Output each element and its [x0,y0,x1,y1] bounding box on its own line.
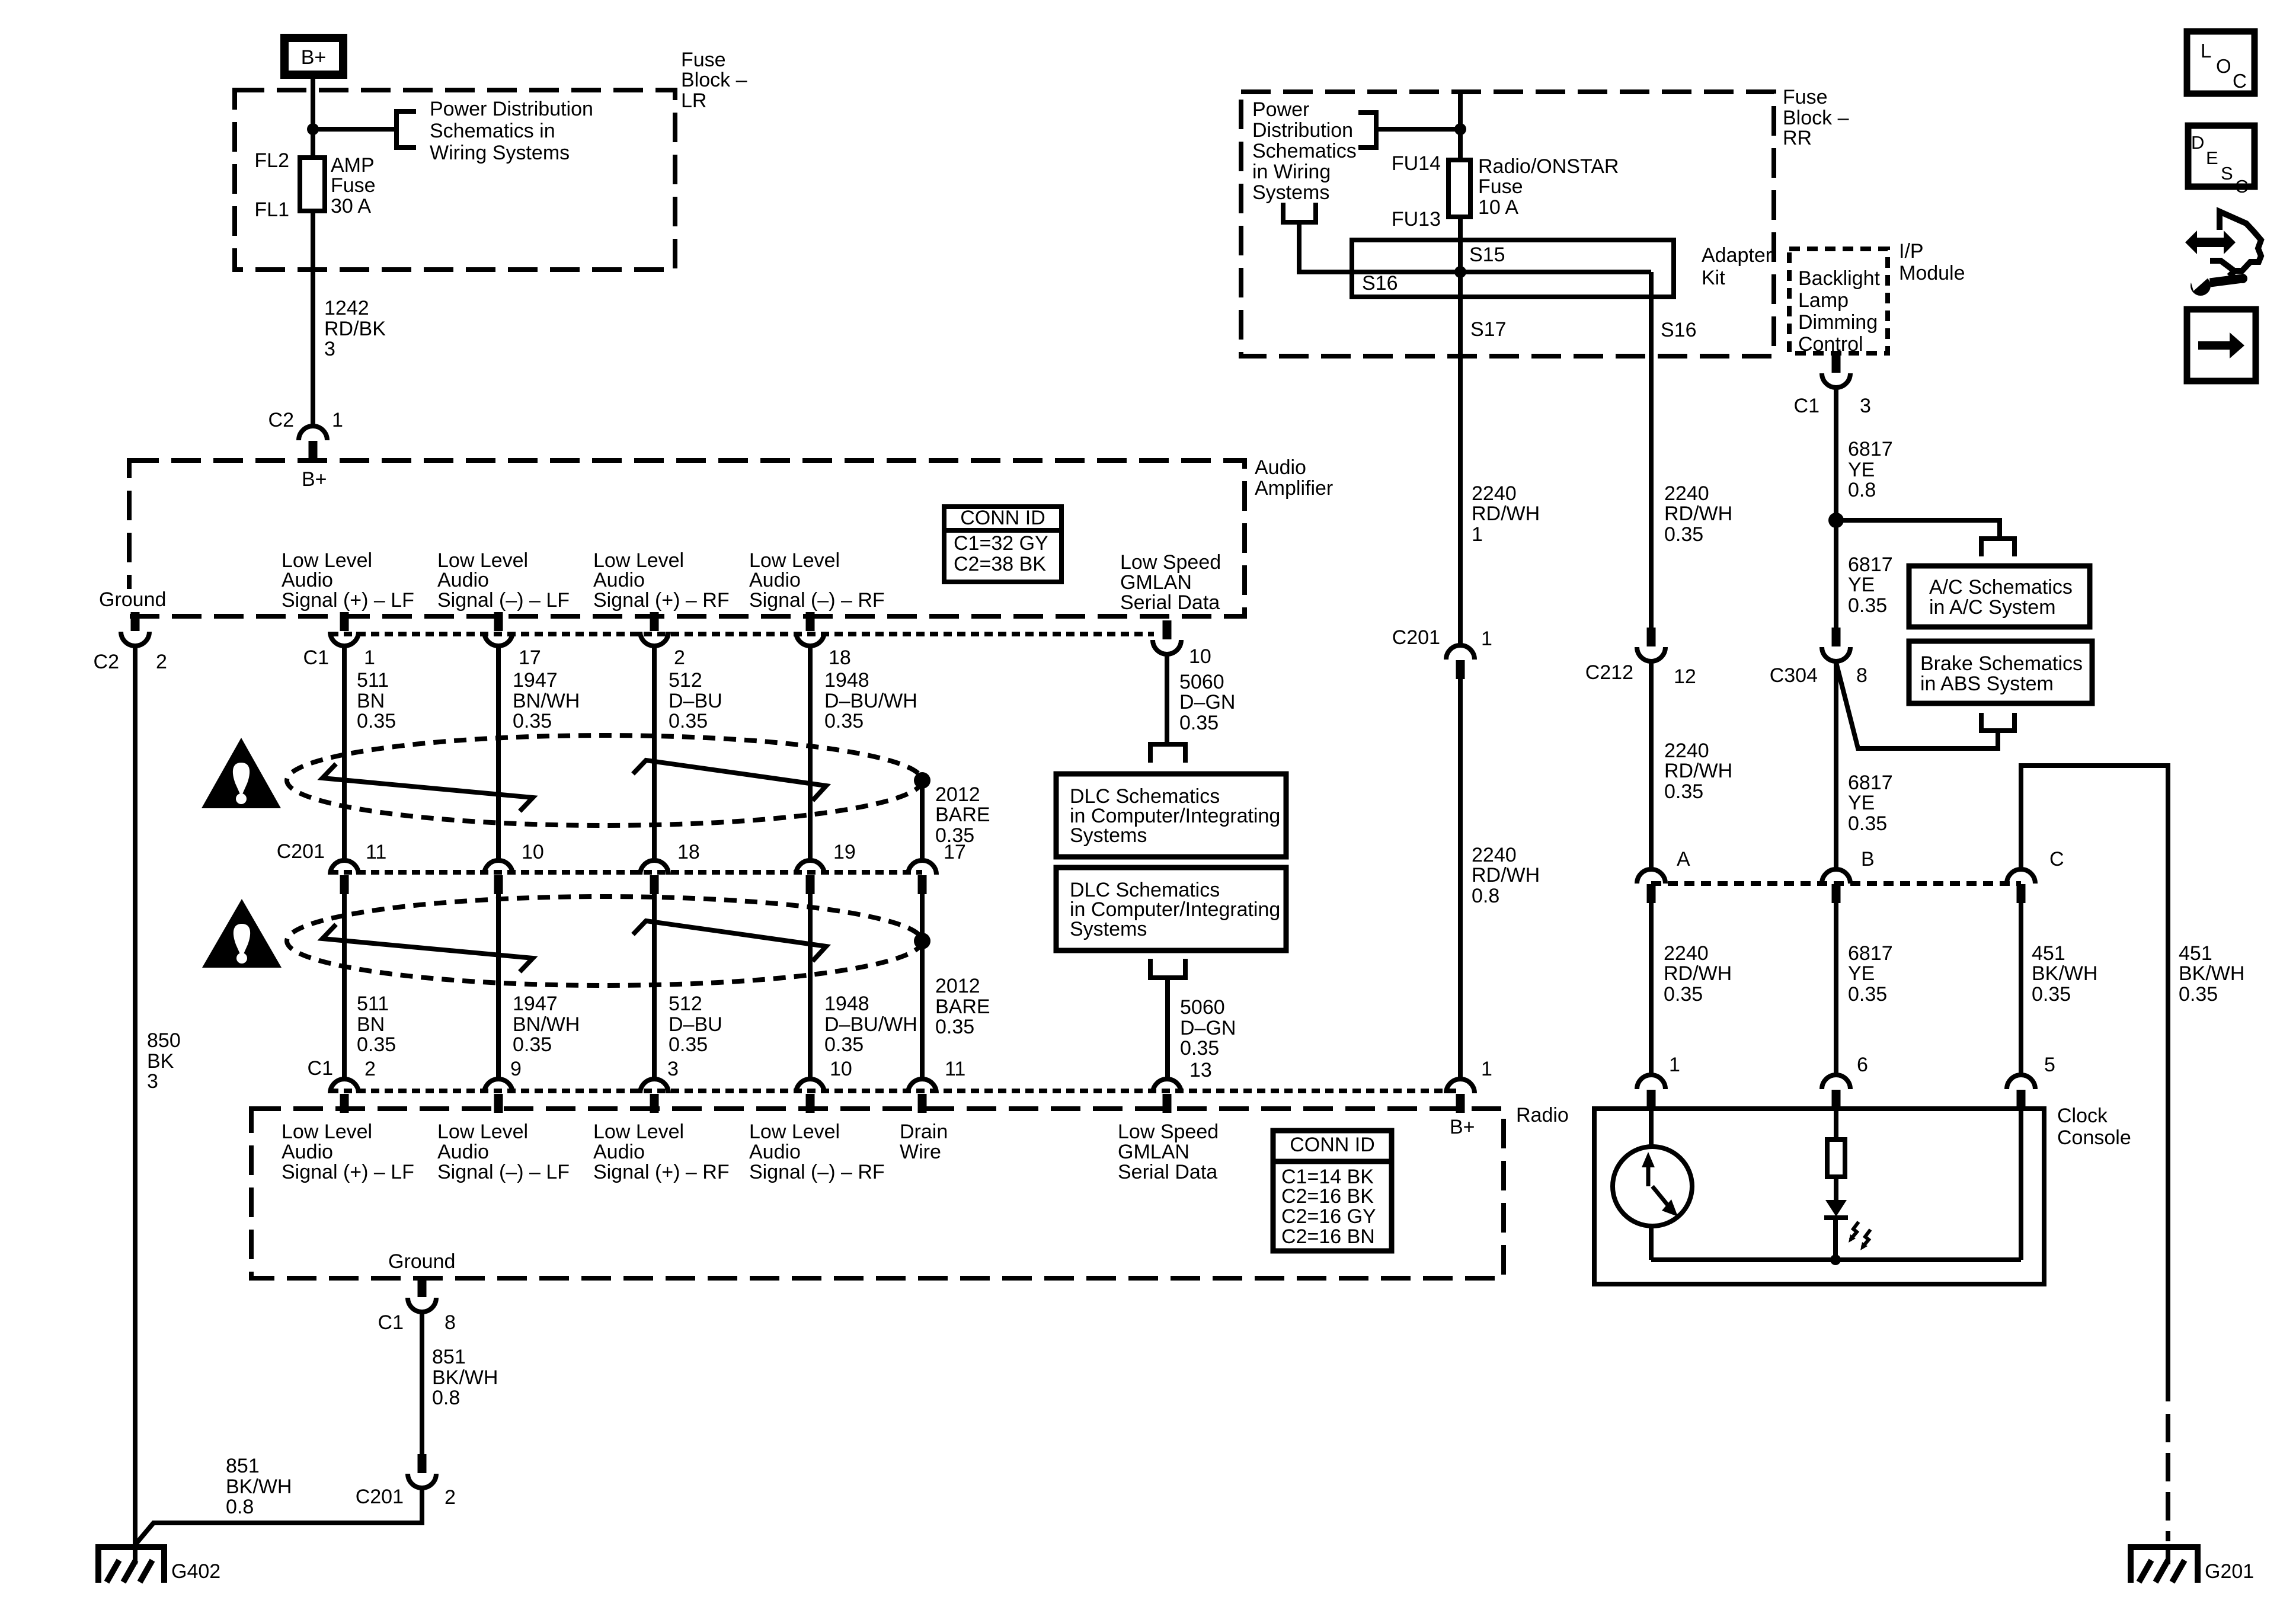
fuse FL2/FL1 AMP Fuse 30 A [300,158,325,211]
svg-text:0.35: 0.35 [669,1033,708,1056]
svg-text:Schematics: Schematics [1252,140,1357,162]
label Low Level Audio Signal (+) - LF (amp) [282,549,414,612]
label G402 [171,1560,220,1583]
svg-text:D–GN: D–GN [1179,691,1235,713]
wire 1948 D-BU/WH segment 2 [808,894,813,1079]
svg-text:S16: S16 [1362,272,1398,295]
dashed box Audio Amplifier [129,460,1245,616]
svg-text:Signal (+) – LF: Signal (+) – LF [282,589,414,612]
svg-text:2: 2 [674,646,685,669]
connector C1 pin 18 RF- [796,612,824,646]
node junction RR top [1454,123,1466,135]
label pin 1 (radio B+) [1481,1058,1492,1080]
connector C201 pin 10 [484,860,513,894]
svg-text:0.8: 0.8 [1848,479,1876,501]
svg-text:I/P: I/P [1899,240,1924,263]
label S16 (splice bar) [1362,272,1398,295]
label pin 13 [1189,1059,1212,1081]
svg-text:Audio: Audio [593,1141,645,1163]
svg-text:0.35: 0.35 [513,710,552,732]
label Radio [1516,1104,1569,1126]
svg-text:Audio: Audio [282,569,333,591]
svg-text:BK/WH: BK/WH [2179,962,2244,985]
node drain junction (upper) [914,772,930,789]
svg-text:1: 1 [1472,523,1483,546]
label pin 6 (clock) [1857,1054,1868,1076]
svg-text:Lamp: Lamp [1798,289,1849,312]
svg-text:Ground: Ground [99,588,166,611]
wire 2240 RD/WH 0.35 (to A) [1649,661,1654,869]
svg-text:S17: S17 [1470,318,1507,341]
svg-text:Systems: Systems [1070,824,1147,847]
svg-text:BARE: BARE [935,804,990,826]
svg-text:D–BU/WH: D–BU/WH [824,1013,917,1036]
svg-text:1948: 1948 [824,669,869,692]
label pin 17 [519,646,541,669]
svg-text:Audio: Audio [749,569,801,591]
label Brake Schematics in ABS System [1920,652,2083,695]
svg-text:C201: C201 [277,840,325,863]
svg-text:1: 1 [1669,1054,1680,1076]
svg-text:Power Distribution: Power Distribution [430,98,593,120]
svg-text:in ABS System: in ABS System [1920,673,2054,695]
dashed link row A-B-C [1651,881,2021,886]
svg-text:D–BU: D–BU [669,1013,722,1036]
svg-text:D–BU: D–BU [669,690,722,712]
connector C201 pin 11 [330,860,359,894]
wire clock to ground bus [1649,1224,1654,1260]
twist arrow right (upper) [633,760,826,801]
svg-text:D–BU/WH: D–BU/WH [824,690,917,712]
wire label 6817 YE 0.8 [1848,438,1893,501]
svg-text:in A/C System: in A/C System [1929,596,2056,619]
wire label 6817 YE 0.35 (to B) [1848,772,1893,835]
svg-text:Amplifier: Amplifier [1255,477,1333,500]
svg-text:Fuse: Fuse [681,49,726,71]
svg-text:1947: 1947 [513,669,558,692]
svg-text:1: 1 [332,409,343,431]
label Low Level Audio Signal (+) - LF (radio) [282,1121,414,1183]
svg-text:Low Level: Low Level [593,1121,684,1143]
node junction backlight [1828,513,1844,528]
label pin 2 (radio) [364,1058,376,1080]
svg-text:1: 1 [1481,628,1492,650]
wire 1947 BN/WH segment 2 [496,894,501,1079]
label pin 19 [833,841,856,863]
svg-text:0.8: 0.8 [1472,885,1499,907]
wire 6817 YE 0.35 (to B) [1834,661,1838,869]
clock symbol (clock motor) [1613,1147,1692,1226]
svg-text:C2=16 BN: C2=16 BN [1281,1225,1375,1248]
svg-text:Kit: Kit [1702,267,1725,289]
wire label 2012 BARE 0.35 (upper) [935,783,990,847]
icon wrench adjust [2185,212,2261,296]
connector C2 pin 1 (audio amplifier) [299,426,327,460]
node junction S15/S16 [1454,266,1466,278]
svg-text:BN/WH: BN/WH [513,690,580,712]
label pin 10 (radio) [830,1058,852,1080]
connector C [2007,869,2035,903]
label FL1 [254,199,289,221]
svg-text:RD/WH: RD/WH [1664,502,1732,525]
svg-text:Audio: Audio [593,569,645,591]
svg-text:C201: C201 [1392,626,1440,649]
wire label 6817 YE 0.35 (below B) [1848,942,1893,1006]
svg-text:Backlight: Backlight [1798,267,1881,290]
connector radio C1 pin 13 GMLAN [1153,1079,1181,1113]
svg-text:BN: BN [357,690,385,712]
label pin 1 (radio feed) [1481,628,1492,650]
svg-text:S15: S15 [1469,244,1505,266]
svg-text:2: 2 [156,651,167,673]
svg-text:13: 13 [1189,1059,1212,1081]
wire 5060 D-GN segment 1 [1165,653,1169,745]
svg-text:18: 18 [677,841,700,863]
wire 512 D-BU segment 2 [652,894,657,1079]
svg-text:Clock: Clock [2057,1105,2108,1127]
dashed box Radio [251,1109,1504,1278]
wire power distribution to S16 [1299,222,1651,272]
connector radio C1 pin 10 [796,1079,824,1113]
svg-text:Low Speed: Low Speed [1118,1121,1219,1143]
label pin 17 (drain) [944,841,966,863]
connector C1 pin 3 (backlight) [1822,354,1850,388]
svg-text:Wiring Systems: Wiring Systems [430,142,570,164]
svg-text:C2=16 BK: C2=16 BK [1281,1185,1374,1208]
connector radio B+ pin 1 [1446,1079,1475,1113]
wire label 2240 RD/WH 0.35 (S16) [1664,482,1732,546]
twisted pair ellipse (upper) [287,735,922,825]
svg-text:Signal (–) – RF: Signal (–) – RF [749,589,885,612]
wire bracket to junction RR [1376,127,1460,132]
wire label 2240 RD/WH 0.8 [1472,844,1540,907]
svg-text:AMP: AMP [331,154,375,177]
off-page bracket from DLC (lower) [1150,959,1185,978]
svg-text:0.35: 0.35 [357,1033,396,1056]
svg-text:Radio/ONSTAR: Radio/ONSTAR [1478,155,1619,178]
connector C1 pin 10 GMLAN [1153,620,1181,654]
dashed box Backlight Lamp Dimming Control [1789,249,1888,353]
label DLC Schematics 2 [1070,879,1280,940]
connector C1 pin 2 RF+ [640,612,669,646]
wire 6817 YE 0.35 (B to clock) [1834,903,1838,1075]
svg-text:3: 3 [147,1070,158,1093]
svg-text:2240: 2240 [1472,844,1517,866]
node junction in fuse block LR [307,123,319,135]
table CONN ID (amplifier) [944,507,1061,582]
svg-text:0.35: 0.35 [669,710,708,732]
svg-text:YE: YE [1848,962,1875,985]
wire label 512 D-BU 0.35 (upper) [669,669,722,732]
svg-text:C: C [2233,70,2247,92]
wire junction to A/C bracket [1836,520,2000,539]
svg-text:BARE: BARE [935,996,990,1018]
svg-text:2240: 2240 [1664,740,1709,762]
label pin 12 [1674,665,1696,688]
wire 451 BK/WH 0.35 (C to clock) [2019,903,2023,1075]
warning symbol (lower twisted pair) [202,899,282,968]
svg-text:GMLAN: GMLAN [1120,571,1192,594]
dashed box Fuse Block - LR [235,90,675,270]
svg-text:B+: B+ [1450,1116,1475,1138]
svg-text:Low Level: Low Level [282,1121,372,1143]
svg-text:G402: G402 [171,1560,220,1583]
wire radio feed (fuse block RR) [1458,92,1463,645]
svg-text:Signal (–) – LF: Signal (–) – LF [437,1161,570,1183]
label C1 (ground) [378,1311,404,1334]
off-page bracket (from brake schematics) [1981,713,2014,731]
svg-text:0.35: 0.35 [935,1016,974,1038]
wire 851 BK/WH segment 1 [420,1312,424,1454]
svg-text:0.35: 0.35 [2179,983,2218,1006]
label pin 8 (C304) [1856,664,1868,687]
svg-text:0.35: 0.35 [1848,812,1887,835]
svg-text:Serial Data: Serial Data [1118,1161,1217,1183]
label pin 18 [677,841,700,863]
svg-text:BK/WH: BK/WH [432,1366,498,1389]
svg-text:CONN ID: CONN ID [960,507,1045,529]
svg-text:Radio: Radio [1516,1104,1569,1126]
wire label 511 BN 0.35 (lower) [357,993,396,1056]
svg-text:A/C Schematics: A/C Schematics [1929,576,2073,598]
label pin 8 [445,1311,456,1334]
off-page bracket (power distribution RR) [1358,113,1376,148]
dashed box Fuse Block - RR [1241,92,1774,356]
label Adapter Kit [1702,244,1772,289]
connector C201 pin 19 [796,860,824,894]
svg-text:C2=38 BK: C2=38 BK [954,553,1046,575]
wire clock feed [1649,1109,1654,1149]
svg-text:Block –: Block – [681,69,747,91]
svg-text:S16: S16 [1661,319,1697,341]
svg-text:Audio: Audio [437,569,489,591]
wire label 1947 BN/WH 0.35 (upper) [513,669,580,732]
wire 2240 RD/WH 0.35 (A to clock) [1649,903,1654,1075]
wire label 5060 D-GN 0.35 (upper) [1179,671,1235,734]
svg-text:RD/WH: RD/WH [1472,502,1540,525]
svg-text:Low Speed: Low Speed [1120,551,1221,574]
LED (clock illumination lamp) [1824,1200,1870,1260]
connector C201 pin 17 drain [908,860,936,894]
icon forward arrow box [2187,309,2256,381]
svg-text:5060: 5060 [1179,671,1224,693]
svg-text:Audio: Audio [1255,456,1306,479]
label B [1861,848,1875,870]
label pin 3 (backlight) [1860,395,1871,417]
svg-text:1: 1 [1481,1058,1492,1080]
dotted connector row C1 (amplifier) [330,632,1154,636]
label pin 10 [522,841,544,863]
wire label 1947 BN/WH 0.35 (lower) [513,993,580,1056]
label B+ (radio pin) [1450,1116,1475,1138]
svg-text:L: L [2201,40,2211,62]
svg-text:C1: C1 [378,1311,404,1334]
svg-text:1948: 1948 [824,993,869,1015]
wire label 2240 RD/WH 0.35 (below A) [1664,942,1732,1006]
svg-text:10: 10 [830,1058,852,1080]
label C1 (amp row) [303,646,329,669]
twist arrow right (lower) [633,921,826,961]
label Low Level Audio Signal (+) - RF (amp) [593,549,730,612]
wire brake schematics to C304 [1836,662,1998,748]
box Clock Console [1594,1109,2044,1284]
connector C304 pin 8 [1822,628,1850,661]
svg-text:851: 851 [226,1455,260,1477]
connector clock pin 1 [1637,1075,1665,1109]
label Drain Wire [900,1121,948,1163]
wire label 5060 D-GN 0.35 (lower) [1180,996,1236,1060]
svg-text:511: 511 [357,669,389,692]
svg-text:C1=32 GY: C1=32 GY [954,532,1048,555]
svg-text:C1: C1 [303,646,329,669]
svg-text:B: B [1861,848,1875,870]
twist arrow left (upper) [322,764,533,811]
label Low Level Audio Signal (-) - RF (amp) [749,549,885,612]
svg-text:YE: YE [1848,574,1875,596]
svg-text:Signal (+) – RF: Signal (+) – RF [593,1161,730,1183]
svg-text:17: 17 [519,646,541,669]
wire label 451 BK/WH 0.35 (below C) [2032,942,2097,1006]
wire 2240 RD/WH 0.8 [1458,679,1463,1079]
connector C1 pin 17 LF- [484,612,513,646]
label Low Level Audio Signal (+) - RF (radio) [593,1121,730,1183]
svg-text:0.35: 0.35 [1180,1037,1219,1060]
label C1 (radio row) [308,1057,333,1080]
off-page bracket (to A/C schematics) [1981,539,2014,556]
label C304 [1770,664,1818,687]
svg-text:B+: B+ [301,46,327,69]
svg-text:A: A [1677,848,1690,870]
svg-text:Dimming: Dimming [1798,311,1878,334]
connector radio C1 pin 3 [640,1079,669,1113]
label Fuse Block - LR [681,49,747,112]
label S16 (branch) [1661,319,1697,341]
svg-text:G201: G201 [2205,1560,2254,1583]
wire 512 D-BU segment 1 [652,646,657,860]
svg-text:512: 512 [669,669,702,692]
svg-text:C2: C2 [94,651,119,673]
svg-text:6817: 6817 [1848,553,1893,576]
svg-text:Low Level: Low Level [437,1121,528,1143]
label Low Level Audio Signal (-) - RF (radio) [749,1121,885,1183]
ground G201 [2131,1547,2198,1583]
wire resistor to LED [1834,1177,1838,1201]
ground G402 [98,1547,164,1583]
connector C1 pin 1 LF+ [330,612,359,646]
label pin 1 [364,646,375,669]
wire 2012 BARE segment 2 [920,894,925,1079]
svg-text:6817: 6817 [1848,942,1893,965]
svg-text:in Wiring: in Wiring [1252,161,1331,183]
label Audio Amplifier [1255,456,1333,500]
svg-text:3: 3 [1860,395,1871,417]
label I/P Module [1899,240,1965,284]
svg-text:E: E [2206,148,2218,168]
wire label 1242 RD/BK 3 [324,297,386,360]
off-page bracket (to splice S16) [1283,203,1316,222]
svg-text:2: 2 [445,1486,456,1509]
label C2 (ground row) [94,651,119,673]
wire 6817 YE 0.8 [1834,388,1838,628]
svg-text:Signal (+) – RF: Signal (+) – RF [593,589,730,612]
wire pin 5 (clock console internal) [2019,1109,2023,1260]
svg-text:FU14: FU14 [1392,152,1441,175]
wire B+ to connector C2-1 [311,75,315,428]
svg-text:YE: YE [1848,459,1875,481]
svg-text:CONN ID: CONN ID [1290,1134,1375,1156]
svg-text:C304: C304 [1770,664,1818,687]
svg-text:Schematics in: Schematics in [430,120,555,142]
svg-text:BN/WH: BN/WH [513,1013,580,1036]
label S17 [1470,318,1507,341]
label Ground (radio pin) [388,1250,455,1273]
svg-text:2240: 2240 [1472,482,1517,505]
svg-text:10: 10 [522,841,544,863]
wire label 1948 D-BU/WH 0.35 (lower) [824,993,917,1056]
wire 1947 BN/WH segment 1 [496,646,501,860]
svg-text:8: 8 [445,1311,456,1334]
wire 2012 BARE segment 1 [920,780,925,860]
svg-text:Distribution: Distribution [1252,119,1353,142]
connector C2 pin 2 (ground out) [121,612,149,646]
svg-text:C: C [2235,176,2248,197]
wire 851 BK/WH segment 2 [135,1488,422,1545]
svg-text:GMLAN: GMLAN [1118,1141,1189,1163]
label pin 18 [829,646,851,669]
svg-text:RD/WH: RD/WH [1664,760,1732,782]
connector radio C1 pin 9 [484,1079,513,1113]
label Low Speed GMLAN Serial Data (radio) [1118,1121,1219,1183]
svg-text:C2: C2 [268,409,294,431]
svg-text:S: S [2221,163,2233,184]
wire label 2012 BARE 0.35 (lower) [935,975,990,1038]
wire 5060 D-GN segment 2 [1165,978,1170,1079]
svg-text:512: 512 [669,993,702,1015]
label pin 2 [674,646,685,669]
svg-text:BK: BK [147,1050,174,1073]
svg-text:0.35: 0.35 [513,1033,552,1056]
power symbol B+ (battery feed) [284,38,343,75]
box A/C Schematics [1909,566,2090,627]
svg-text:Adapter: Adapter [1702,244,1772,267]
label C201 (radio feed) [1392,626,1440,649]
svg-text:451: 451 [2179,942,2212,965]
svg-text:Module: Module [1899,262,1965,284]
svg-text:0.8: 0.8 [226,1496,254,1518]
svg-text:10: 10 [1189,645,1211,668]
svg-text:Fuse: Fuse [331,174,376,197]
svg-text:3: 3 [324,338,335,360]
fuse FU14/FU13 Radio/ONSTAR 10 A [1448,160,1470,217]
svg-text:C201: C201 [356,1486,404,1508]
svg-text:0.8: 0.8 [432,1387,460,1409]
svg-text:C2=16 GY: C2=16 GY [1281,1205,1376,1228]
svg-text:12: 12 [1674,665,1696,688]
box DLC Schematics 1 [1056,774,1286,857]
svg-text:FU13: FU13 [1392,208,1441,231]
label FU14 [1392,152,1441,175]
svg-text:C1: C1 [308,1057,333,1080]
svg-text:19: 19 [833,841,856,863]
svg-text:2012: 2012 [935,975,980,997]
label Power Distribution Schematics in Wiring Systems (RR) [1252,98,1357,204]
wire lamp feed [1834,1109,1838,1140]
svg-text:451: 451 [2032,942,2065,965]
icon LOC box [2187,31,2255,94]
svg-text:2012: 2012 [935,783,980,806]
wire 850 BK 3 [133,646,137,1564]
label pin 11 [366,841,386,863]
